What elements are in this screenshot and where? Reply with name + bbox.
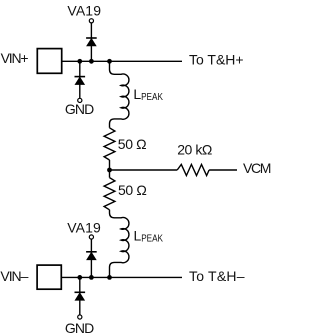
ESD diode to GND (top): anode triangle xyxy=(75,77,84,84)
node dot (bottom, GND diode tap) xyxy=(77,275,82,280)
value label L_PEAK (bottom) xyxy=(134,227,164,244)
value label L_PEAK (top) xyxy=(133,86,163,103)
terminal circle GND (top) xyxy=(78,98,82,102)
input box VIN+ xyxy=(37,49,61,74)
terminal circle GND (bottom) xyxy=(78,315,82,319)
wire center tap to 20k resistor xyxy=(110,169,178,171)
terminal circle VA19 (bottom) xyxy=(89,235,93,239)
svg-text:50 Ω: 50 Ω xyxy=(118,182,147,198)
ESD diode to VA19 (top): anode triangle xyxy=(87,39,96,46)
wire bottom horizontal to T&H- xyxy=(61,276,182,278)
svg-text:VCM: VCM xyxy=(243,160,271,176)
resistor 50 ohm (upper) xyxy=(104,128,115,160)
svg-text:VA19: VA19 xyxy=(67,3,101,19)
node dot (top, GND diode tap) xyxy=(77,59,82,64)
ESD diode to GND (bottom): anode triangle xyxy=(75,293,84,300)
wire center tap vertical xyxy=(109,160,111,178)
svg-text:VIN+: VIN+ xyxy=(1,50,29,66)
terminal circle VA19 (top) xyxy=(89,19,93,23)
ESD diode to GND (top): cathode bar xyxy=(75,76,86,78)
svg-text:PEAK: PEAK xyxy=(141,234,163,245)
inductor L_PEAK (top) xyxy=(110,61,129,128)
ESD diode to VA19 (bottom): anode triangle xyxy=(87,253,96,260)
ESD diode to VA19 (bottom): cathode bar xyxy=(86,251,97,253)
node dot (bottom, VA19 diode tap) xyxy=(89,275,94,280)
svg-text:PEAK: PEAK xyxy=(141,92,163,103)
svg-text:GND: GND xyxy=(65,101,94,117)
wire top horizontal to T&H+ xyxy=(62,60,182,62)
svg-text:VIN–: VIN– xyxy=(0,268,28,284)
node dot (bottom, inductor tap) xyxy=(107,275,112,280)
wire GND stub (bottom) xyxy=(79,277,81,315)
resistor 50 ohm (lower) xyxy=(104,178,115,210)
wire 20k resistor to VCM xyxy=(209,169,237,171)
svg-text:50 Ω: 50 Ω xyxy=(118,136,147,152)
node dot (top, VA19 diode tap) xyxy=(89,59,94,64)
wire VA19 stub (bottom) xyxy=(90,239,92,277)
node dot (top, inductor tap) xyxy=(107,59,112,64)
svg-text:To T&H–: To T&H– xyxy=(189,268,245,284)
ESD diode to VA19 (top): cathode bar xyxy=(86,37,97,39)
svg-text:To T&H+: To T&H+ xyxy=(189,52,244,68)
inductor L_PEAK (bottom) xyxy=(110,210,129,278)
resistor 20 kohm xyxy=(177,164,209,175)
input box VIN- xyxy=(37,265,61,289)
ESD diode to GND (bottom): cathode bar xyxy=(75,291,86,293)
wire VA19 stub (top) xyxy=(90,23,92,61)
svg-text:20 kΩ: 20 kΩ xyxy=(177,142,212,158)
svg-text:VA19: VA19 xyxy=(67,219,101,235)
wire GND stub (top) xyxy=(79,61,81,98)
svg-text:GND: GND xyxy=(65,320,94,336)
node dot center tap xyxy=(107,168,112,173)
